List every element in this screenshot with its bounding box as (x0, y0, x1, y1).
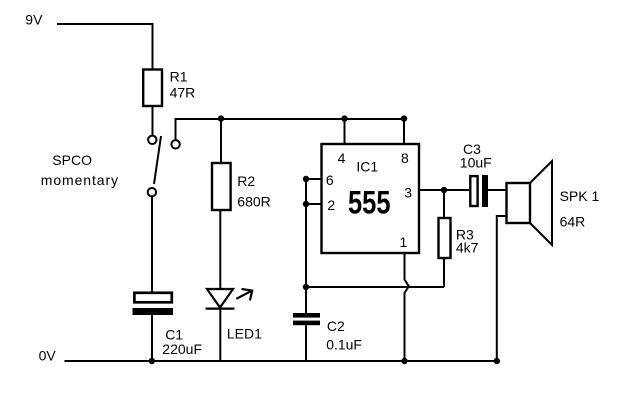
svg-text:10uF: 10uF (460, 154, 492, 170)
svg-text:47R: 47R (170, 84, 196, 100)
wire top net to R2 top (220, 119, 222, 163)
wire pin 3 to C3 (419, 189, 469, 191)
svg-text:C1: C1 (165, 326, 183, 342)
svg-text:2: 2 (327, 197, 335, 213)
svg-text:SPCO: SPCO (52, 152, 92, 168)
svg-text:220uF: 220uF (162, 341, 202, 357)
svg-text:9V: 9V (25, 12, 43, 28)
svg-text:LED1: LED1 (227, 326, 262, 342)
speaker SPK1 (507, 161, 600, 245)
wire threshold net horizontal to R3 bottom (306, 286, 444, 288)
switch SW1 lever (154, 136, 161, 184)
wire pin3 junction to R3 top (443, 190, 445, 218)
wire switch NO contact up to top net (176, 119, 405, 141)
IC U1 555 body (322, 144, 420, 253)
wire 9V rail to R1 top (57, 24, 153, 70)
wire pin 1 to 0V rail with crossover hop (405, 253, 409, 361)
svg-text:IC1: IC1 (356, 158, 378, 174)
wire R2 bottom to LED1 anode (219, 210, 221, 290)
svg-text:555: 555 (348, 185, 391, 221)
capacitor C1 (133, 293, 203, 357)
junction pin 3 / R3 (441, 187, 447, 193)
junction top net / pin 8 (401, 115, 407, 121)
wire R3 bottom to threshold net (443, 258, 445, 287)
switch SW1 pole contact (top) (148, 136, 156, 144)
label SPCO momentary (41, 152, 119, 188)
capacitor C2 (293, 313, 362, 352)
wire C2 top (305, 287, 307, 313)
svg-text:R2: R2 (237, 173, 255, 189)
junction speaker wire / 0V rail end (494, 358, 500, 364)
LED LED1 (206, 289, 263, 342)
svg-text:64R: 64R (560, 213, 586, 229)
wire speaker lower terminal to 0V rail (497, 216, 507, 361)
wire pin 4 to top net (344, 119, 346, 144)
svg-text:6: 6 (326, 172, 334, 188)
wire LED1 cathode to 0V rail (219, 309, 221, 361)
switch SW1 NO contact (171, 140, 179, 148)
wire 0V rail (65, 360, 497, 362)
resistor R3 (439, 218, 479, 258)
capacitor C3 (460, 141, 492, 207)
resistor R2 (212, 163, 271, 210)
svg-text:4: 4 (338, 150, 346, 166)
junction top net / R2 (218, 115, 224, 121)
svg-text:1: 1 (400, 234, 408, 250)
resistor R1 (143, 68, 195, 106)
wire pin 6 stub (306, 178, 322, 180)
svg-text:3: 3 (404, 185, 412, 201)
svg-text:8: 8 (401, 150, 409, 166)
svg-text:R1: R1 (170, 68, 188, 84)
svg-text:0V: 0V (39, 347, 57, 363)
wire switch common to C1 top (151, 197, 153, 292)
wire pins 6-2 down to threshold net (305, 179, 307, 287)
switch SW1 common contact (bottom) (148, 188, 156, 196)
svg-text:4k7: 4k7 (456, 239, 479, 255)
svg-text:680R: 680R (237, 194, 270, 210)
wire pin 8 to top net (403, 119, 405, 144)
svg-text:momentary: momentary (41, 172, 119, 188)
junction top net / pin 4 (341, 115, 347, 121)
wire C3 to speaker (488, 189, 507, 191)
junction pin 6 (303, 176, 309, 182)
junction pin 2 (303, 201, 309, 207)
junction threshold net / C2 (303, 284, 309, 290)
junction pin 1 wire / 0V rail (401, 358, 407, 364)
wire C2 bottom to 0V rail (305, 325, 307, 361)
svg-text:SPK 1: SPK 1 (560, 188, 600, 204)
wire C1 bottom to 0V rail (151, 315, 153, 361)
junction C1 / 0V rail (149, 358, 155, 364)
wire R1 bottom to switch pole (152, 106, 154, 135)
svg-text:0.1uF: 0.1uF (326, 336, 362, 352)
svg-text:C2: C2 (327, 318, 345, 334)
wire pin 2 stub (306, 203, 322, 205)
